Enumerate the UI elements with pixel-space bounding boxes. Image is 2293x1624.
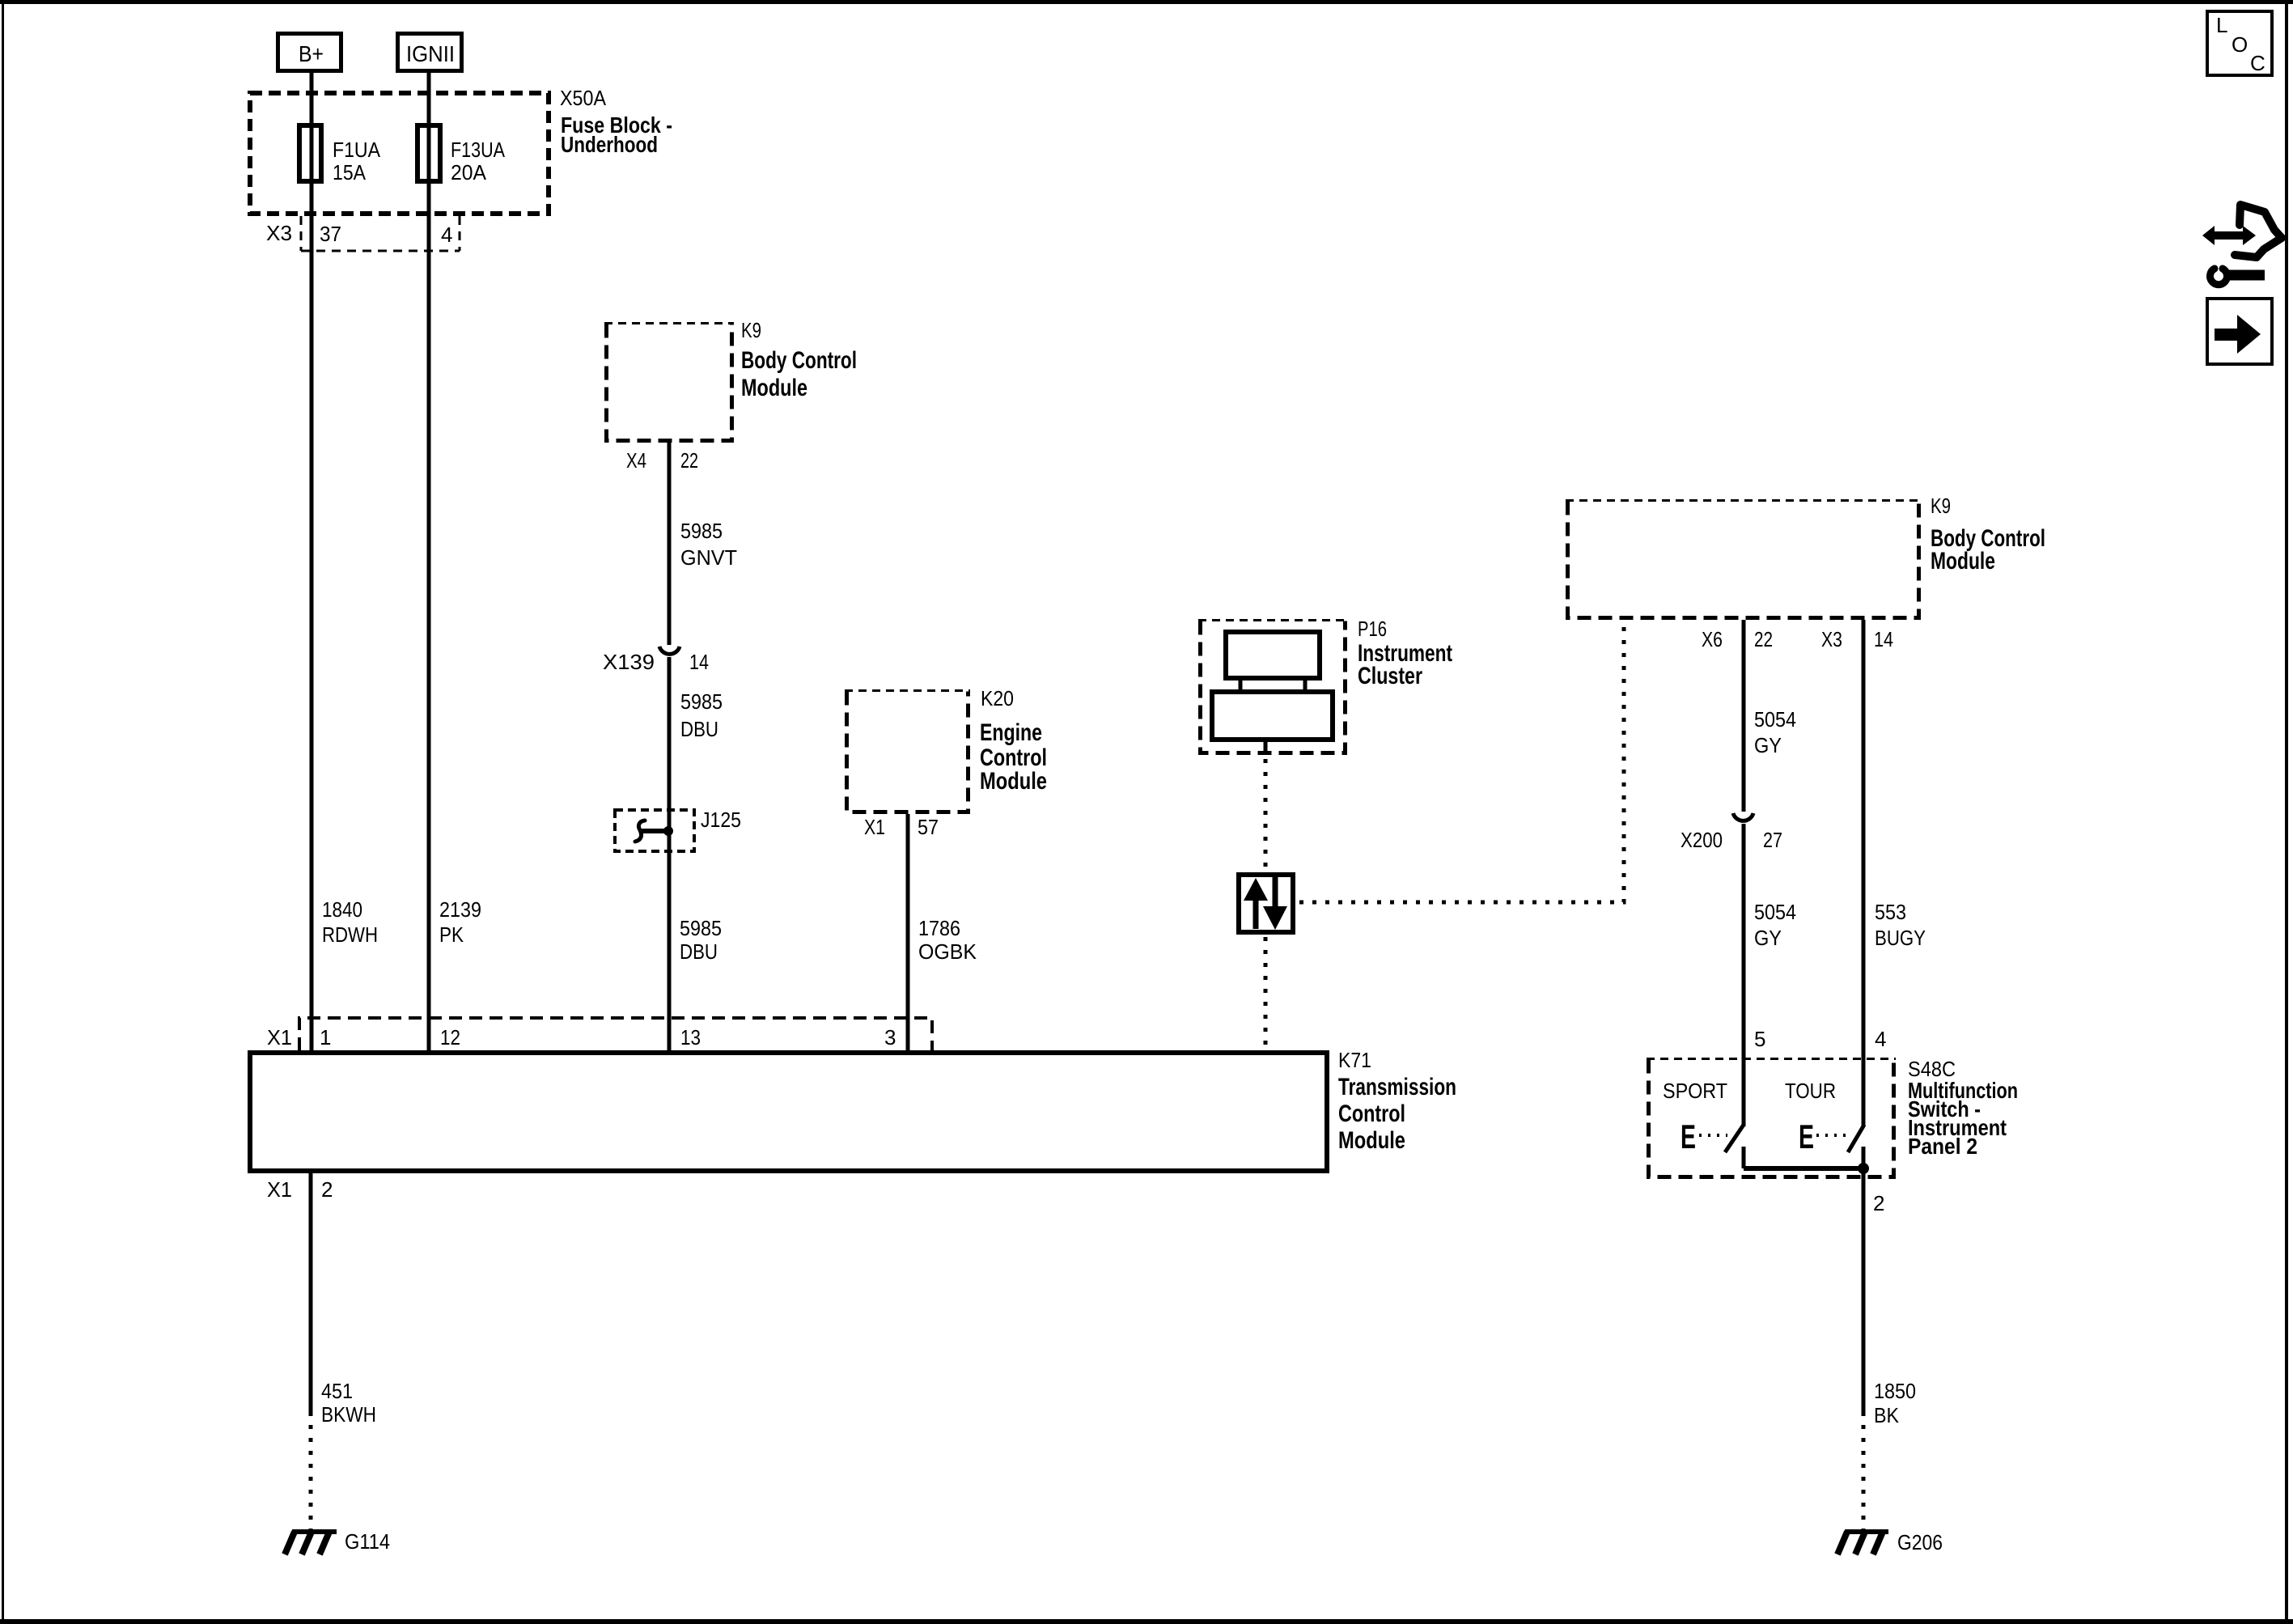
serial data dotted: cluster to data-link symbol: [1264, 759, 1268, 872]
icon: harness routing symbol: [2202, 205, 2282, 285]
svg-text:K9: K9: [1931, 494, 1951, 518]
svg-text:4: 4: [1875, 1027, 1886, 1051]
wire label 1840 RDWH: [322, 897, 378, 947]
svg-text:L: L: [2216, 13, 2227, 37]
svg-text:3: 3: [884, 1025, 896, 1049]
svg-text:553: 553: [1875, 900, 1906, 924]
svg-text:K20: K20: [981, 686, 1014, 710]
fuse block connector X3 band: [266, 216, 460, 251]
inline connector X200 pin 27: [1681, 813, 1782, 852]
svg-text:20A: 20A: [451, 160, 487, 184]
wire X200 to SPORT switch: [1742, 824, 1746, 1126]
svg-text:GY: GY: [1754, 733, 1782, 757]
svg-text:X200: X200: [1681, 828, 1723, 852]
svg-text:BUGY: BUGY: [1875, 926, 1926, 950]
module K20 Engine Control Module: [845, 686, 1047, 812]
svg-text:X1: X1: [267, 1177, 292, 1202]
icon: forward arrow box: [2207, 299, 2272, 364]
svg-text:12: 12: [440, 1025, 460, 1049]
wire to G206 (dotted): [1862, 1412, 1866, 1529]
wire label 5054 GY (lower): [1754, 900, 1796, 950]
svg-text:X50A: X50A: [560, 86, 607, 110]
wire ECM X1-57 to TCM pin 3: [906, 814, 910, 1050]
svg-text:O: O: [2232, 32, 2248, 57]
svg-text:F13UA: F13UA: [451, 138, 506, 162]
ground G114: [285, 1529, 390, 1554]
svg-text:22: 22: [680, 448, 698, 473]
svg-text:OGBK: OGBK: [918, 939, 977, 964]
svg-text:57: 57: [918, 815, 939, 839]
wire S48C pin2 to ground (solid): [1862, 1168, 1866, 1412]
svg-text:E: E: [1681, 1117, 1696, 1155]
svg-text:15A: 15A: [333, 160, 367, 184]
power feed B+ box: [278, 34, 341, 71]
wire label 5985 DBU (upper): [680, 689, 723, 741]
svg-text:X4: X4: [626, 448, 646, 473]
svg-text:F1UA: F1UA: [333, 138, 381, 162]
wire BCM X4-22 down to X139: [668, 443, 672, 645]
pin X4 22: [626, 448, 698, 473]
svg-text:G206: G206: [1897, 1530, 1943, 1554]
svg-text:X3: X3: [266, 221, 292, 245]
svg-text:BKWH: BKWH: [321, 1402, 376, 1427]
svg-text:Engine: Engine: [980, 719, 1042, 746]
svg-text:5985: 5985: [680, 916, 722, 940]
svg-text:27: 27: [1763, 828, 1782, 852]
LOC legend box: [2207, 11, 2272, 75]
svg-text:1786: 1786: [918, 916, 960, 940]
svg-text:DBU: DBU: [680, 717, 718, 741]
svg-text:4: 4: [441, 223, 452, 247]
svg-text:TOUR: TOUR: [1785, 1079, 1836, 1103]
splice J125: [615, 808, 741, 851]
svg-text:5054: 5054: [1754, 900, 1796, 924]
TOUR switch: [1785, 1079, 1864, 1168]
svg-text:Module: Module: [741, 375, 807, 401]
wire label 5054 GY (upper): [1754, 707, 1796, 757]
wire BCM X6-22 down to X200: [1742, 620, 1746, 812]
svg-text:1850: 1850: [1874, 1379, 1916, 1403]
pins X6 22 X3 14: [1702, 627, 1893, 651]
data link symbol (up/down arrows): [1239, 875, 1293, 932]
fuse F13UA 20A: [417, 125, 506, 184]
svg-text:GNVT: GNVT: [680, 545, 737, 570]
wire label 553 BUGY: [1875, 900, 1926, 950]
svg-text:GY: GY: [1754, 926, 1782, 950]
switch common link and junction: [1744, 1163, 1869, 1174]
wire label 451 BKWH: [321, 1379, 376, 1427]
module K71 Transmission Control Module: [250, 1048, 1456, 1171]
serial data dotted: symbol to TCM: [1264, 937, 1268, 1050]
svg-text:Cluster: Cluster: [1358, 663, 1422, 689]
serial data dotted: symbol to BCM (right): [1299, 620, 1624, 902]
wire TCM X1-2 to ground (solid): [309, 1173, 313, 1412]
svg-text:2139: 2139: [439, 897, 481, 922]
svg-text:Body Control: Body Control: [741, 347, 857, 374]
svg-text:2: 2: [321, 1177, 333, 1202]
svg-text:Module: Module: [980, 768, 1047, 795]
pin X1 57: [864, 815, 939, 839]
svg-text:RDWH: RDWH: [322, 922, 378, 947]
svg-text:P16: P16: [1358, 617, 1387, 641]
svg-text:BK: BK: [1874, 1403, 1900, 1427]
svg-text:13: 13: [680, 1025, 701, 1049]
svg-text:X6: X6: [1702, 627, 1723, 651]
svg-text:5054: 5054: [1754, 707, 1796, 731]
svg-text:Transmission: Transmission: [1338, 1074, 1456, 1100]
svg-text:Module: Module: [1338, 1127, 1405, 1154]
svg-text:5985: 5985: [680, 519, 723, 543]
TCM connector band X1: [267, 1018, 932, 1050]
svg-text:IGNII: IGNII: [406, 41, 455, 66]
wire label 5985 GNVT: [680, 519, 737, 570]
inline connector X139 pin 14: [603, 647, 709, 674]
module K9 Body Control Module (right): [1566, 494, 2045, 618]
wire to G114 (dotted): [309, 1412, 313, 1529]
svg-text:PK: PK: [439, 922, 464, 947]
svg-text:E: E: [1799, 1117, 1814, 1155]
svg-text:14: 14: [689, 650, 709, 674]
svg-text:X3: X3: [1821, 627, 1842, 651]
fuse block X50A dashed box: [250, 86, 672, 214]
svg-text:22: 22: [1754, 627, 1773, 651]
svg-text:G114: G114: [345, 1529, 390, 1554]
svg-text:K71: K71: [1338, 1048, 1371, 1072]
svg-text:B+: B+: [299, 41, 324, 66]
svg-text:X139: X139: [603, 650, 655, 674]
wire label 1850 BK: [1874, 1379, 1916, 1427]
SPORT switch: [1663, 1079, 1744, 1168]
wire label 2139 PK: [439, 897, 481, 947]
svg-text:5985: 5985: [680, 689, 723, 714]
module K9 Body Control Module (left): [604, 318, 857, 441]
svg-text:451: 451: [321, 1379, 353, 1403]
svg-text:Panel 2: Panel 2: [1908, 1134, 1977, 1159]
ground G206: [1837, 1530, 1943, 1554]
svg-text:1840: 1840: [322, 897, 362, 922]
wire BCM X3-14 to TOUR switch: [1862, 620, 1866, 1126]
wire B+ feed to TCM pin 1: [310, 73, 314, 1050]
svg-text:C: C: [2250, 51, 2265, 75]
svg-text:14: 14: [1874, 627, 1893, 651]
svg-text:X1: X1: [864, 815, 885, 839]
power feed IGNII box: [398, 34, 462, 71]
svg-text:DBU: DBU: [680, 939, 718, 964]
svg-text:K9: K9: [741, 318, 761, 342]
svg-text:Module: Module: [1931, 548, 1995, 575]
svg-text:Underhood: Underhood: [561, 132, 658, 157]
wire label 1786 OGBK: [918, 916, 977, 964]
pin X1 2 (TCM bottom): [267, 1177, 333, 1202]
svg-text:2: 2: [1873, 1191, 1884, 1215]
svg-text:1: 1: [320, 1025, 331, 1049]
fuse F1UA 15A: [299, 125, 381, 184]
switch assembly S48C dashed box: [1647, 1057, 2018, 1177]
wire X139 to J125 splice: [668, 657, 672, 1050]
instrument cluster P16: [1198, 617, 1452, 755]
wire IGNII feed to TCM pin 12: [427, 73, 431, 1050]
svg-text:Control: Control: [1338, 1100, 1405, 1127]
svg-text:J125: J125: [701, 808, 741, 832]
svg-text:5: 5: [1754, 1027, 1765, 1051]
svg-text:SPORT: SPORT: [1663, 1079, 1727, 1103]
svg-text:X1: X1: [267, 1025, 292, 1049]
svg-text:37: 37: [320, 222, 341, 246]
wire label 5985 DBU (lower): [680, 916, 722, 964]
